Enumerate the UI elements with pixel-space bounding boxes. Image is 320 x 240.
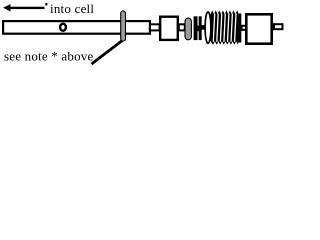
coil end ellipse [205,12,211,44]
nut flanges (H piece) [194,16,206,40]
ferrule 2 (gray) [185,18,191,40]
svg-text:see note * above: see note * above [4,49,94,64]
vent hole [60,24,66,31]
arrow into cell [3,4,45,11]
connector 2 [179,24,185,30]
threads [211,10,239,44]
pointer line [92,41,123,64]
svg-text:into cell: into cell [50,1,94,16]
connector 3 [242,26,247,30]
tube into cell [3,21,150,34]
asterisk marker [45,3,47,6]
box 1 [160,17,178,40]
background [0,0,288,66]
ferrule 1 (gray) [121,11,126,41]
box 2 [246,14,271,43]
connector 1 [150,24,160,30]
right stub [274,24,283,29]
thread end cap [239,14,242,43]
